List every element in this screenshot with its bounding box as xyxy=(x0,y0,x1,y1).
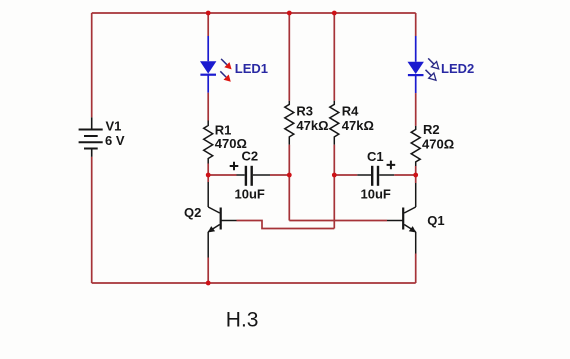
svg-text:Q1: Q1 xyxy=(427,213,444,228)
svg-text:C2: C2 xyxy=(242,149,259,164)
wire node A to Q2 collector xyxy=(207,175,209,182)
wire LED2 branch top xyxy=(415,13,417,36)
node C (R4/C1) xyxy=(332,173,337,178)
resistor R3 xyxy=(285,101,294,145)
transistor Q1 xyxy=(387,183,416,254)
node junction top R4 xyxy=(332,11,337,16)
wire R2 to node xyxy=(415,166,417,175)
wire LED1 to R1 xyxy=(207,93,209,121)
capacitor C1 xyxy=(357,166,394,186)
resistor R2 xyxy=(411,126,420,166)
wire bottom rail xyxy=(92,282,416,284)
LED2 xyxy=(408,36,424,93)
svg-text:LED1: LED1 xyxy=(235,61,268,76)
label C2 plus xyxy=(230,162,239,170)
LED2 emission arrow 2 (off) xyxy=(426,70,437,81)
LED2 emission arrow 1 (off) xyxy=(428,58,439,69)
resistor R4 xyxy=(330,101,339,145)
wire C2 left xyxy=(208,174,236,176)
svg-text:47kΩ: 47kΩ xyxy=(342,118,374,133)
wire R3 to node xyxy=(288,145,290,175)
wire Q1 emitter to bottom rail xyxy=(415,254,417,284)
svg-text:47kΩ: 47kΩ xyxy=(296,118,328,133)
LED1 xyxy=(200,36,216,93)
wire C1 left xyxy=(334,174,357,176)
wire R3 node down to Q1 base xyxy=(289,175,387,221)
LED1 emission arrow 1 (lit) xyxy=(221,59,232,70)
Q1 emitter arrow xyxy=(409,226,416,232)
node junction top R3 xyxy=(287,11,292,16)
wire R4 node down to coupling xyxy=(333,175,335,229)
wire LED2 to R2 xyxy=(415,93,417,126)
node junction bottom Q2 emitter xyxy=(206,281,211,286)
capacitor C2 xyxy=(237,166,271,186)
wire C2 right xyxy=(270,174,289,176)
svg-text:10uF: 10uF xyxy=(361,186,391,201)
resistor R1 xyxy=(204,121,213,164)
wire Q2 emitter to bottom rail xyxy=(207,258,209,284)
wire left rail lower xyxy=(91,157,93,283)
svg-text:R1: R1 xyxy=(215,122,232,137)
svg-text:10uF: 10uF xyxy=(235,187,265,202)
svg-text:V1: V1 xyxy=(106,118,122,133)
wire node D to Q1 collector xyxy=(415,175,417,183)
Q2 emitter arrow xyxy=(208,226,215,232)
svg-text:R3: R3 xyxy=(296,104,313,119)
wire left rail upper xyxy=(91,13,93,117)
node junction top LED1 xyxy=(206,11,211,16)
transistor Q2 xyxy=(208,182,236,258)
wire LED1 branch top xyxy=(207,13,209,36)
svg-text:R4: R4 xyxy=(342,104,359,119)
LED1 emission arrow 2 (lit) xyxy=(220,71,231,82)
node A (R1/C2/Q2) xyxy=(206,173,211,178)
svg-text:R2: R2 xyxy=(423,122,440,137)
wire R1 to node xyxy=(207,164,209,176)
wire top rail xyxy=(92,12,416,14)
svg-text:H.3: H.3 xyxy=(226,308,259,331)
svg-text:6 V: 6 V xyxy=(105,133,125,148)
wire Q2 base cross-coupling to R4 xyxy=(237,221,335,229)
svg-text:470Ω: 470Ω xyxy=(422,136,454,151)
svg-text:C1: C1 xyxy=(367,149,384,164)
node D (R2/C1/Q1) xyxy=(413,173,418,178)
node B (R3/C2) xyxy=(287,173,292,178)
wire R4 to node xyxy=(333,145,335,175)
wire R3 branch top xyxy=(288,13,290,101)
wire C1 right xyxy=(394,174,415,176)
svg-text:Q2: Q2 xyxy=(184,205,201,220)
svg-text:LED2: LED2 xyxy=(441,61,474,76)
wire R4 branch top xyxy=(333,13,335,101)
label C1 plus xyxy=(387,161,396,170)
battery V1 xyxy=(79,117,103,156)
